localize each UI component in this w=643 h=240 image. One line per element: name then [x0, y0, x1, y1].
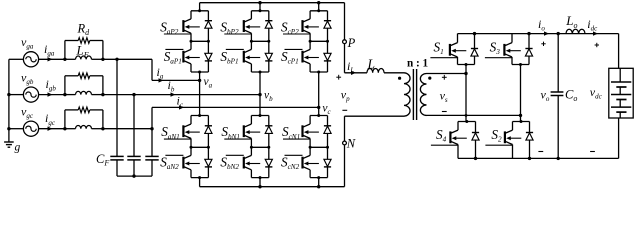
svg-text:g: g: [15, 142, 21, 154]
svg-text:N: N: [346, 136, 356, 150]
svg-text:n : 1: n : 1: [407, 58, 429, 70]
svg-text:P: P: [347, 36, 356, 50]
svg-text:L: L: [367, 57, 376, 72]
